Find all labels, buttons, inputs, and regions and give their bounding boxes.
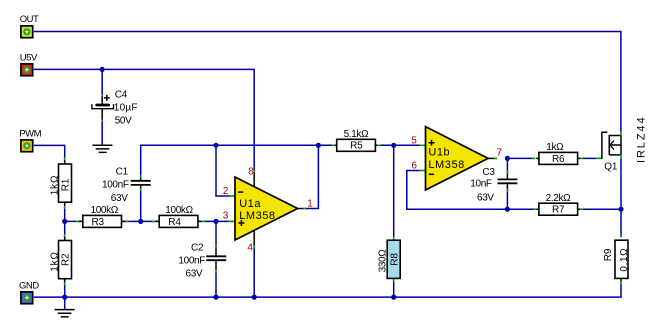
svg-text:63V: 63V xyxy=(186,269,203,280)
svg-text:LM358: LM358 xyxy=(239,210,275,222)
node GND rail / R8 junction xyxy=(391,295,396,300)
wire U1b pin 6 feedback to R7 xyxy=(407,171,534,210)
resistor R2 xyxy=(49,234,71,285)
svg-text:LM358: LM358 xyxy=(428,159,464,171)
svg-text:R9: R9 xyxy=(603,248,614,261)
svg-text:1kΩ: 1kΩ xyxy=(546,142,564,153)
node PWM/R1/R2/R3 junction xyxy=(62,219,67,224)
wire pin 7 node down through C3 xyxy=(506,158,508,209)
svg-text:2.2kΩ: 2.2kΩ xyxy=(546,193,572,204)
node pin1 feedback junction xyxy=(316,143,321,148)
svg-text:U1a: U1a xyxy=(239,198,261,210)
connector PWM xyxy=(19,128,41,151)
transistor Q1 xyxy=(595,116,647,173)
capacitor C2 xyxy=(178,243,226,280)
svg-text:6: 6 xyxy=(411,161,417,172)
capacitor C1 xyxy=(102,167,151,205)
node R8 top junction xyxy=(391,143,396,148)
svg-text:IRLZ44: IRLZ44 xyxy=(635,116,647,163)
wire ground stem under R2 xyxy=(64,297,66,309)
wire PWM node row (R3, R4 to pin 3) xyxy=(65,220,229,222)
svg-text:1: 1 xyxy=(307,198,313,209)
wire net A to R8 top xyxy=(393,145,395,237)
ground (under R2) xyxy=(55,310,75,317)
connector GND xyxy=(19,280,39,303)
wire net A to U1a pin 2 xyxy=(216,145,229,196)
op-amp U1a xyxy=(229,170,306,248)
wire R2 leads xyxy=(64,221,66,297)
svg-text:U1b: U1b xyxy=(428,147,450,159)
svg-text:100kΩ: 100kΩ xyxy=(90,205,118,216)
svg-text:U5V: U5V xyxy=(20,52,38,63)
resistor R8 xyxy=(378,237,401,282)
resistor R9 xyxy=(603,234,630,285)
wire pin 3 node down to C2 xyxy=(215,221,217,245)
svg-text:0.1Ω: 0.1Ω xyxy=(619,248,630,272)
wire R7 right to Q1 source net xyxy=(583,208,621,210)
connector OUT xyxy=(20,14,39,38)
svg-text:1kΩ: 1kΩ xyxy=(49,251,60,271)
wire C1 bottom to R3/R4 node xyxy=(140,191,142,222)
svg-text:R5: R5 xyxy=(350,141,363,152)
wire net A (C1 top, R5 row to U1b pin 5) xyxy=(141,145,420,177)
capacitor C4 xyxy=(92,89,138,126)
svg-text:7: 7 xyxy=(497,148,503,159)
svg-text:C1: C1 xyxy=(116,167,129,178)
svg-text:OUT: OUT xyxy=(20,14,39,25)
svg-text:100nF: 100nF xyxy=(178,256,205,267)
node C1/R3/R4 junction xyxy=(138,219,143,224)
svg-text:Q1: Q1 xyxy=(604,162,618,173)
svg-text:10µF: 10µF xyxy=(114,103,138,114)
svg-text:3: 3 xyxy=(223,211,229,222)
svg-text:5.1kΩ: 5.1kΩ xyxy=(344,129,370,140)
op-amp U1b xyxy=(419,127,497,190)
svg-text:1kΩ: 1kΩ xyxy=(49,175,60,195)
svg-text:100kΩ: 100kΩ xyxy=(165,205,193,216)
node C3/R7 junction xyxy=(505,207,510,212)
svg-text:10nF: 10nF xyxy=(470,178,492,189)
svg-text:50V: 50V xyxy=(115,115,132,126)
capacitor C3 xyxy=(470,167,517,204)
svg-text:5: 5 xyxy=(411,135,417,146)
svg-text:8: 8 xyxy=(248,167,254,178)
wire OUT net (top rail and right vertical to Q1 drain) xyxy=(34,32,621,132)
svg-text:R1: R1 xyxy=(60,178,71,191)
resistor R3 xyxy=(76,205,129,228)
resistor R5 xyxy=(332,129,381,152)
resistor R7 xyxy=(534,193,584,216)
resistor R4 xyxy=(152,205,205,228)
node U5V/C4 junction xyxy=(100,67,105,72)
node pin7/C3/R6 junction xyxy=(505,156,510,161)
wire GND bottom rail (up to R9) xyxy=(34,284,621,297)
wire U5V to C4 xyxy=(101,69,103,144)
svg-text:100nF: 100nF xyxy=(102,179,129,190)
wire PWM to R1 xyxy=(34,145,65,158)
wire R8 bottom to GND rail xyxy=(393,282,395,298)
wire C2 bottom to GND rail xyxy=(215,272,217,297)
svg-text:R6: R6 xyxy=(552,154,565,165)
svg-text:2: 2 xyxy=(223,186,229,197)
svg-text:R7: R7 xyxy=(552,205,565,216)
wire U1b pin 7 to R6 xyxy=(505,157,596,159)
svg-text:R4: R4 xyxy=(168,217,181,228)
wire U5V rail (to U1a pin 8) xyxy=(34,69,254,170)
node R7/source/R9 junction xyxy=(618,207,623,212)
ground (under C4) xyxy=(93,145,113,152)
svg-text:C2: C2 xyxy=(191,243,204,254)
wire U1a pin 4 to GND rail xyxy=(253,248,255,298)
node GND rail / C2 junction xyxy=(213,295,218,300)
svg-text:C4: C4 xyxy=(115,89,128,100)
node net A / pin2 branch junction xyxy=(213,143,218,148)
svg-text:63V: 63V xyxy=(477,193,494,204)
node GND rail / pin4 junction xyxy=(252,295,257,300)
wire U1a pin 1 feedback up to net A xyxy=(305,145,318,208)
svg-text:PWM: PWM xyxy=(19,128,41,139)
svg-text:330Ω: 330Ω xyxy=(378,249,389,273)
resistor R6 xyxy=(532,142,583,165)
wire Q1 source down to R9 xyxy=(620,158,622,237)
svg-text:C3: C3 xyxy=(482,167,495,178)
resistor R1 xyxy=(49,157,71,209)
wire R1 bottom to PWM node xyxy=(64,206,66,222)
svg-text:R8: R8 xyxy=(389,253,400,266)
connector U5V xyxy=(20,52,38,75)
svg-text:GND: GND xyxy=(19,280,39,291)
svg-text:63V: 63V xyxy=(111,193,128,204)
node GND rail / R2 junction xyxy=(62,295,67,300)
svg-text:R2: R2 xyxy=(60,253,71,266)
svg-text:R3: R3 xyxy=(92,217,105,228)
node R4/pin3/C2 junction xyxy=(213,219,218,224)
svg-text:4: 4 xyxy=(247,243,253,254)
